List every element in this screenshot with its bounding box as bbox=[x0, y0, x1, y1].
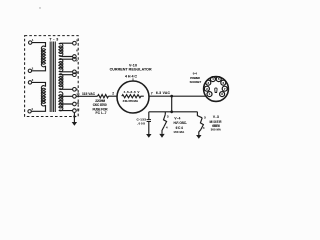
heater V-4 bbox=[164, 114, 167, 126]
resistor R (2.2 ohm fuse) bbox=[98, 95, 109, 98]
wire primary A bottom bbox=[32, 66, 46, 71]
socket pins bbox=[204, 77, 227, 97]
svg-text:6.3 VAC: 6.3 VAC bbox=[156, 91, 171, 95]
ground transformer bbox=[72, 122, 77, 126]
wire primary B top bbox=[32, 82, 46, 86]
wire S8 bbox=[61, 95, 73, 97]
svg-text:T-3: T-3 bbox=[49, 37, 58, 41]
pin 2 bbox=[204, 86, 209, 91]
wire S3 bbox=[60, 58, 73, 60]
svg-text:V-4: V-4 bbox=[174, 116, 180, 120]
pin 4 bbox=[210, 77, 215, 82]
svg-text:H.F. OSC.: H.F. OSC. bbox=[174, 121, 187, 125]
svg-text:CURRENT REGULATOR: CURRENT REGULATOR bbox=[110, 68, 152, 72]
pin 6 bbox=[221, 80, 226, 85]
leader line bbox=[132, 78, 134, 81]
wire S1 bbox=[60, 42, 73, 45]
wire transformer ground bbox=[73, 113, 75, 123]
wire S9 bbox=[61, 103, 73, 105]
ground V-3 bbox=[196, 135, 201, 139]
junction dot B bbox=[170, 110, 173, 113]
secondary terminal S4 bbox=[73, 70, 77, 74]
wire S6 bbox=[60, 88, 73, 91]
pin 7 bbox=[222, 86, 227, 91]
pin 5 bbox=[216, 77, 221, 82]
wire S5 bbox=[60, 74, 73, 76]
svg-text:FC L-7: FC L-7 bbox=[96, 111, 107, 115]
svg-text:3: 3 bbox=[204, 115, 206, 119]
svg-text:V-3: V-3 bbox=[213, 115, 219, 119]
ground V-4 bbox=[159, 134, 164, 138]
tube V-10 envelope bbox=[117, 81, 149, 113]
svg-text:6BE6: 6BE6 bbox=[212, 124, 220, 128]
secondary winding B4 bbox=[59, 92, 63, 111]
primary winding B bbox=[41, 86, 45, 106]
svg-text:7: 7 bbox=[151, 91, 153, 95]
wire V-3 heater tap bbox=[197, 112, 202, 118]
secondary terminal S6 bbox=[73, 88, 77, 92]
wire V-4 heater tap bbox=[164, 112, 166, 115]
wire S2 bbox=[60, 55, 73, 56]
secondary winding B2 bbox=[59, 59, 63, 72]
svg-text:2: 2 bbox=[112, 92, 114, 96]
wire V-4 to ground bbox=[162, 127, 164, 134]
primary winding A bbox=[41, 46, 45, 67]
secondary terminal S3 bbox=[73, 57, 77, 61]
ballast resistor inside V-10 bbox=[122, 95, 144, 98]
power socket 0-4 outline bbox=[204, 77, 229, 102]
secondary winding B3 bbox=[59, 74, 63, 90]
primary terminal P1 bbox=[29, 41, 32, 44]
wire S4 bbox=[60, 70, 73, 73]
wire cap to ground bbox=[148, 122, 150, 135]
svg-text:0-4: 0-4 bbox=[193, 72, 197, 76]
wire S10 bbox=[60, 109, 73, 112]
heater V-3 bbox=[200, 118, 203, 130]
secondary terminal S9 bbox=[73, 102, 77, 106]
primary terminal P4 bbox=[28, 110, 31, 113]
svg-text:300 MA: 300 MA bbox=[211, 128, 221, 132]
svg-text:4: 4 bbox=[166, 126, 168, 130]
secondary terminal S8 bbox=[73, 95, 77, 99]
ground C-133 bbox=[146, 134, 151, 138]
primary terminal P2 bbox=[28, 69, 31, 72]
junction dot A bbox=[170, 95, 173, 98]
wire 115 VAC bbox=[76, 95, 97, 97]
wire drop to heater rail bbox=[171, 96, 173, 112]
svg-text:SOCKET: SOCKET bbox=[190, 80, 202, 84]
pin 1 bbox=[207, 92, 212, 97]
svg-text:.005: .005 bbox=[137, 121, 145, 125]
heater rail bbox=[149, 111, 198, 113]
tiny terminal pin labels transformer bbox=[31, 38, 80, 111]
transformer T-3 dashed box bbox=[25, 36, 79, 117]
core laminations bbox=[50, 42, 55, 113]
svg-text:4: 4 bbox=[203, 126, 205, 130]
wire primary B bottom bbox=[31, 105, 45, 111]
svg-text:150 MA: 150 MA bbox=[173, 130, 185, 134]
socket keyway bbox=[215, 88, 217, 93]
wire V-3 to ground bbox=[199, 130, 201, 135]
primary terminal P3 bbox=[28, 81, 31, 84]
secondary terminal S10 bbox=[73, 109, 77, 113]
secondary terminal S1 bbox=[73, 41, 77, 45]
junction at border bbox=[73, 115, 75, 117]
wire capacitor branch bbox=[148, 112, 150, 120]
scan speck bbox=[39, 7, 40, 8]
secondary terminal S2 bbox=[73, 55, 77, 59]
secondary winding B1 bbox=[59, 43, 63, 56]
wire primary A top bbox=[32, 43, 46, 47]
svg-text:115 VAC: 115 VAC bbox=[82, 92, 96, 96]
svg-text:4.5-8.5 V: 4.5-8.5 V bbox=[124, 90, 141, 94]
svg-text:440-470 MA: 440-470 MA bbox=[123, 99, 139, 103]
wire 6.3 VAC to socket bbox=[149, 95, 207, 97]
svg-text:4H4C: 4H4C bbox=[125, 74, 137, 78]
svg-text:3: 3 bbox=[167, 114, 169, 118]
pin 8 bbox=[220, 92, 225, 97]
pin 3 bbox=[206, 80, 211, 85]
capacitor C-133 bbox=[147, 120, 151, 122]
secondary terminal S5 bbox=[73, 73, 77, 77]
wire to pin 2 bbox=[108, 95, 117, 97]
